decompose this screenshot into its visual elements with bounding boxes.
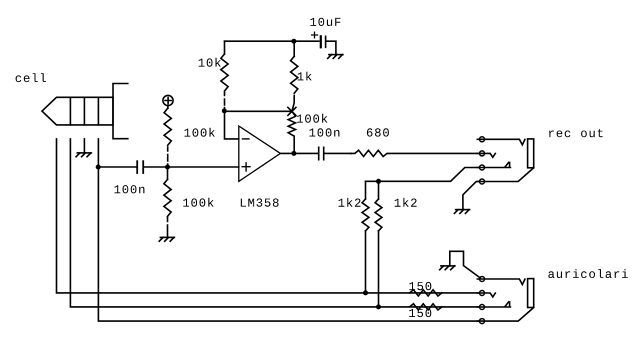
node junction 1k2 left bottom (363, 290, 368, 295)
label 150 upper (409, 282, 431, 290)
jack rec out terminal circles (480, 137, 485, 184)
wire cell pin2 to auricolari line (70, 139, 479, 307)
connector cell socket bracket (113, 84, 128, 139)
capacitor 100n output (319, 147, 351, 159)
label cell (16, 73, 46, 82)
wire cell pin1 to auricolari line (57, 139, 480, 293)
wire op-amp output (280, 152, 317, 154)
node junction 1k2 right top (376, 179, 381, 184)
wire plus input (168, 166, 239, 168)
label LM358 (241, 198, 279, 206)
resistor 680 (351, 150, 480, 156)
label 1k2 right (395, 198, 417, 207)
node junction output (291, 151, 296, 156)
wire cell pin3 to ground (83, 139, 85, 153)
label 100n output (310, 128, 340, 136)
wire 1k2 node (366, 168, 480, 182)
resistor 1k2 left (362, 181, 369, 293)
node junction cell signal / 100n (96, 165, 101, 170)
wire minus input feedback (225, 111, 239, 139)
resistor 150 lower (410, 304, 442, 310)
label 100k feedback (297, 114, 327, 123)
jack rec out tip contact (477, 139, 525, 145)
label 1k (298, 72, 312, 81)
connector cell plug body (42, 97, 113, 125)
jack auricolari tip contact (477, 279, 525, 285)
jack rec out contact 3 (477, 162, 510, 167)
node junction bias (165, 165, 170, 170)
ground below 100k (159, 237, 174, 241)
ground rec out (454, 210, 469, 214)
jack auricolari contact 3 (477, 302, 510, 307)
wire feedback horizontal (225, 110, 291, 112)
label 680 (367, 128, 389, 136)
jack auricolari terminal circles (480, 277, 485, 324)
label 100k bias upper (185, 128, 215, 137)
connector cell plug divider 2 (83, 97, 85, 125)
resistor 100k feedback mid (288, 111, 295, 151)
jack rec out plug body (528, 139, 534, 168)
resistor 1k (291, 41, 298, 111)
ground below 10uF (328, 55, 343, 59)
resistor 10k feedback (221, 41, 228, 109)
label 100k bias lower (183, 198, 213, 207)
resistor 150 upper (410, 290, 442, 296)
label 10uF (310, 18, 340, 26)
label 150 lower (409, 309, 431, 317)
capacitor 100n input (98, 161, 166, 173)
wire rec out sleeve to ground (463, 182, 480, 210)
junction X mark (288, 107, 296, 115)
ground below cell (76, 153, 91, 157)
supply plus symbol (163, 95, 173, 105)
jack rec out contact 2 (477, 153, 495, 157)
node junction top rail (291, 39, 296, 44)
resistor 100k bias upper (164, 105, 171, 167)
jack auricolari sleeve (477, 308, 533, 322)
jack auricolari contact 2 (477, 293, 495, 297)
connector cell plug divider 1 (69, 97, 71, 125)
wire auricolari tip switch to ground (450, 251, 480, 278)
connector cell plug divider 3 (97, 97, 99, 125)
capacitor 10uF (312, 32, 336, 54)
label 1k2 left (339, 198, 361, 207)
ground auricolari (440, 266, 455, 270)
op-amp U1 LM358 (239, 126, 281, 181)
label auricolari (548, 269, 627, 278)
wire cell pin4 signal down to bottom line (98, 139, 479, 321)
label 100n input (115, 185, 145, 193)
resistor 100k bias lower (164, 167, 171, 237)
label 10k (199, 58, 221, 67)
jack auricolari plug body (528, 279, 534, 308)
jack rec out sleeve (477, 168, 533, 182)
label rec out (549, 129, 603, 137)
node junction feedback (222, 108, 227, 113)
resistor 1k2 right (375, 181, 382, 307)
node junction 1k2 right bottom (376, 304, 381, 309)
wire top rail (225, 40, 319, 42)
